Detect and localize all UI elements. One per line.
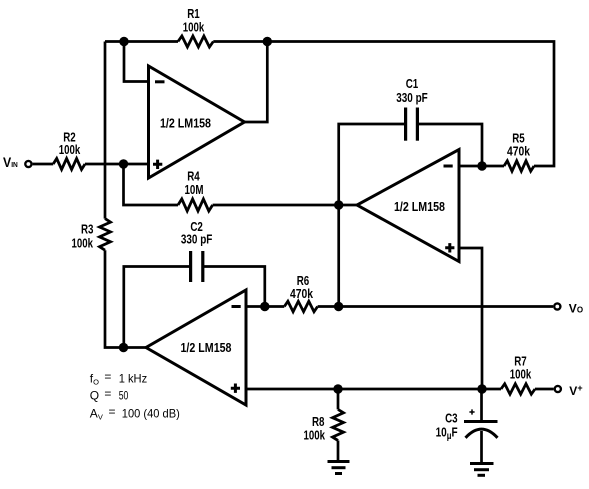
svg-text:100k: 100k [304,428,326,443]
node: U3 input junction (R3/C2/U3) [119,343,128,352]
svg-text:100k: 100k [59,142,81,157]
svg-text:=: = [104,370,111,384]
label R5 [512,131,525,146]
resistor R5 [504,161,534,171]
svg-text:C3: C3 [445,411,458,426]
wire: U3 output to R6 [246,305,284,308]
node: U2 input junction (R4/C1/U2) [334,200,343,209]
svg-text:1 kHz: 1 kHz [119,372,148,386]
label U1 1/2 LM158 [160,116,211,131]
label C2 [190,219,203,234]
terminal VIN (input) [25,161,31,167]
svg-text:330 pF: 330 pF [181,232,213,247]
svg-text:330 pF: 330 pF [396,90,428,105]
label C3 value 10uF [436,425,458,443]
node: VIN / R2 / R4 junction [119,159,128,168]
label C2 value 330 pF [181,232,213,247]
label U2 1/2 LM158 [394,199,445,214]
label R3 value 100k [72,235,94,250]
terminal V+ (supply) [555,386,561,392]
resistor R3 [100,219,111,251]
op-amp U3 (1/2 LM158, points left) [146,290,246,405]
wire: C1 left leg (U2 node up and over to C1) [339,124,406,205]
label R8 value 100k [304,428,326,443]
label R4 value 10M [185,182,204,197]
svg-text:=: = [104,387,111,401]
wire: R8 bottom lead to ground [337,441,340,462]
wire: U2 non-inverting input over and down to supply rail [459,248,482,389]
label C1 [406,76,419,91]
svg-text:50: 50 [119,389,129,403]
label VO [569,301,583,315]
wire: VIN terminal to R2 [33,163,54,166]
svg-text:100k: 100k [510,367,532,382]
label R1 value 100k [183,20,205,35]
label R7 value 100k [510,367,532,382]
svg-text:C1: C1 [406,76,419,91]
capacitor C1 [406,108,418,141]
label R1 [187,6,200,21]
svg-text:1/2 LM158: 1/2 LM158 [160,116,211,131]
node: R5 / C1 / U2 inverting input [477,161,486,170]
wire: branch from top bus down to U1 inverting input [124,42,149,82]
label R4 [187,169,200,184]
op-amp U1 (1/2 LM158, points right) [149,66,245,178]
svg-text:1/2 LM158: 1/2 LM158 [394,199,445,214]
ground (below C3) [470,464,494,476]
node: top bus / U1 inverting branch [119,37,128,46]
label fO = 1 kHz [90,370,147,387]
wire: R4 right side to U2 input node [213,204,357,207]
svg-text:R3: R3 [81,222,94,237]
wire: C1 right leg down to R5 node [417,124,482,166]
resistor R4 [178,199,213,211]
node: R6 / VO line junction [334,302,343,311]
label AV = 100 (40 dB) [90,404,180,421]
svg-text:100k: 100k [183,20,205,35]
label R5 value 470k [507,144,531,159]
wire: U3 non-inverting input line to C3/R7 node [246,388,501,391]
wire: left bus from top bus down through R3 to U3 input node [105,42,146,348]
label R6 [297,273,310,288]
svg-text:470k: 470k [507,144,531,159]
wire: C2 left leg (U3 node up and over to C2) [124,267,191,348]
wire: top feedback bus right segment, down right side to R5 [213,42,554,167]
resistor R1 [178,36,213,47]
wire: top feedback bus left segment [105,40,178,43]
wire: U1 output up to top bus [245,42,268,123]
svg-text:Q: Q [90,389,99,403]
wire: R8 top lead [337,389,340,409]
label R2 [63,130,76,145]
label R7 [514,354,527,369]
resistor R6 [284,301,317,311]
label R6 value 470k [290,286,314,301]
svg-text:10M: 10M [185,182,204,197]
ground (below R8) [328,462,350,474]
node: C3 / R7 junction [477,384,486,393]
svg-text:1/2 LM158: 1/2 LM158 [181,340,232,355]
terminal VO (output) [554,303,560,309]
node: top bus / U1 output [263,37,272,46]
svg-text:470k: 470k [290,286,314,301]
wire: R6 to VO terminal [318,305,553,308]
wire: R2 to U1 non-inverting input [85,163,149,166]
svg-text:100k: 100k [72,235,94,250]
label Q = 50 [90,387,129,403]
capacitor C3 (polarized) [464,409,498,437]
resistor R8 [333,409,344,440]
wire: U2 node down to VO line [337,205,340,307]
node: R8 junction on supply line [333,384,342,393]
wire: R7 to V+ terminal [535,388,554,391]
node: U3 output / C2 junction [260,302,269,311]
resistor R7 [501,384,535,394]
label R8 [312,414,325,429]
label V+ [569,383,582,398]
svg-text:100 (40 dB): 100 (40 dB) [122,406,180,420]
label VIN [3,154,18,170]
wire: U2 inverting input to R5 node [459,165,504,168]
wire: C2 right leg down to U3 output node [203,267,265,307]
wire: C3 top lead [480,389,483,422]
label R2 value 100k [59,142,81,157]
label R3 [81,222,94,237]
label C3 [445,411,458,426]
svg-text:10μF: 10μF [436,425,458,443]
capacitor C2 [191,251,203,282]
label C1 value 330 pF [396,90,428,105]
wire: C3 bottom lead to ground [480,431,483,463]
wire: VIN node down to R4 [124,164,179,205]
svg-text:=: = [109,404,116,418]
resistor R2 [53,159,85,170]
label U3 1/2 LM158 [181,340,232,355]
op-amp U2 (1/2 LM158, points left) [357,150,459,262]
